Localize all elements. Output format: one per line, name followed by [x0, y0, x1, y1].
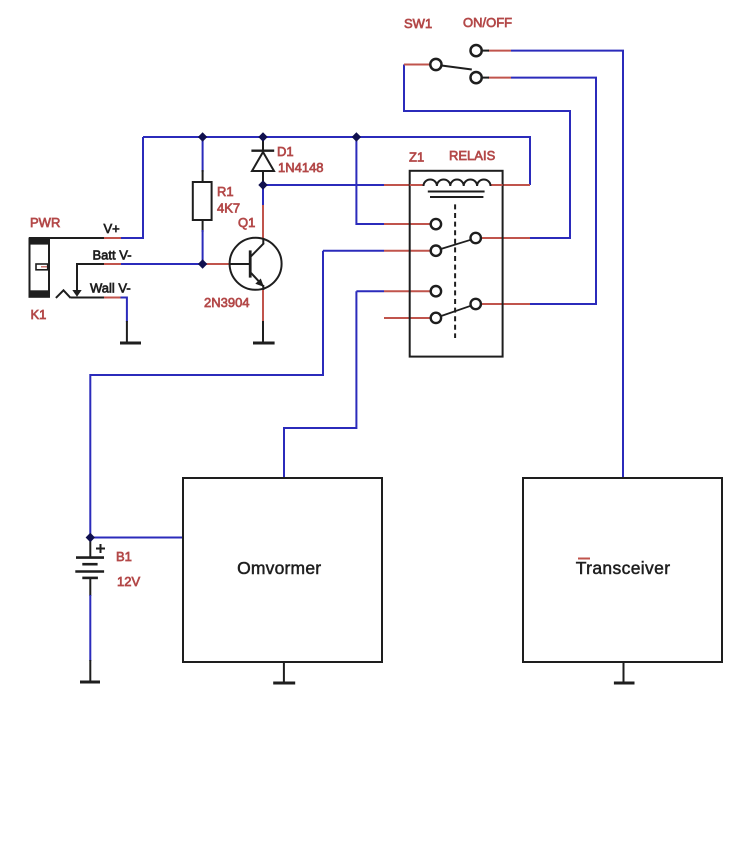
wire CR2 red [481, 303, 530, 305]
box Omvormer [183, 478, 382, 662]
relay core lines [428, 192, 485, 198]
wire R1 bottom blue [202, 230, 204, 264]
ground Transceiver [614, 662, 635, 683]
wire R1 pin bottom [202, 220, 204, 232]
wire D1 pin top [262, 137, 264, 151]
wire C2 to battery [90, 251, 323, 538]
svg-text:D1: D1 [277, 144, 294, 159]
svg-text:1N4148: 1N4148 [278, 160, 324, 175]
wire C2 blue [323, 250, 384, 252]
svg-text:K1: K1 [31, 307, 47, 322]
wire CR2 to switch bottom [511, 78, 596, 304]
svg-text:V+: V+ [104, 221, 120, 236]
node rail-D1 junction [258, 132, 267, 141]
wire C3 to Omvormer top [284, 291, 356, 478]
svg-text:Transceiver: Transceiver [576, 558, 671, 578]
svg-text:Q1: Q1 [238, 215, 255, 230]
relay contact C3 [431, 286, 441, 296]
svg-text:4K7: 4K7 [217, 201, 240, 216]
wire base red [203, 263, 229, 265]
resistor R1 [193, 182, 212, 220]
wire R1 pin top [202, 170, 204, 182]
svg-text:12V: 12V [117, 574, 140, 589]
svg-text:RELAIS: RELAIS [449, 148, 496, 163]
svg-text:PWR: PWR [30, 215, 60, 230]
ground Omvormer [273, 662, 295, 683]
wire V+ red stub [104, 237, 121, 239]
label Transceiver red artifact [578, 558, 590, 560]
svg-text:SW1: SW1 [404, 16, 432, 31]
wire Wall V- red stub [104, 297, 121, 299]
wire R1 top blue [202, 137, 204, 172]
wire Wall V- black [71, 297, 104, 299]
transistor Q1 [229, 238, 282, 290]
wire battery bottom blue [89, 595, 91, 661]
wire V+ blue [121, 237, 144, 239]
wire C1 red [384, 223, 431, 225]
wire V+ riser [142, 137, 144, 238]
wire coil left blue [263, 184, 384, 186]
svg-text:Wall V-: Wall V- [90, 281, 131, 296]
switch SW1 arm [442, 66, 472, 70]
relay arm group1 [441, 240, 471, 249]
box Transceiver [523, 478, 722, 662]
relay dashed separator [454, 204, 456, 338]
wire coil left red [384, 184, 410, 186]
wire D1 pin bottom [262, 171, 264, 185]
node rail-R1 junction [198, 132, 207, 141]
wire collector red [262, 205, 264, 239]
wire switch top red stub [488, 50, 511, 52]
connector K1 [29, 238, 50, 297]
node battery junction [86, 533, 95, 542]
node D1-coil junction [258, 180, 267, 189]
wire switch top black stub [482, 50, 489, 52]
ground Q1 emitter [253, 321, 275, 343]
wire Batt V- blue [121, 263, 203, 265]
wire top rail [143, 136, 530, 138]
relay Z1 box [410, 171, 503, 357]
wire Batt V- red stub [104, 263, 121, 265]
switch SW1 top contact [471, 45, 482, 56]
wire CR1 to switch common [404, 65, 570, 239]
ground B1 [80, 660, 100, 682]
svg-text:Omvormer: Omvormer [237, 558, 321, 578]
relay coil feed left inside [410, 184, 424, 186]
svg-text:Batt V-: Batt V- [93, 248, 132, 263]
relay contact CR2 [471, 299, 481, 309]
relay coil feed right inside [490, 184, 503, 186]
wire collector blue [262, 185, 264, 205]
wire CR1 red [481, 237, 530, 239]
relay coil arcs [424, 180, 491, 187]
wire Wall V- blue corner down [121, 298, 127, 323]
relay contact C2 [431, 246, 441, 256]
relay contact C4 [431, 313, 441, 323]
relay contact CR1 [471, 233, 481, 243]
svg-text:B1: B1 [116, 549, 132, 564]
node rail-C1 junction [352, 132, 361, 141]
wire C4 red stub [384, 317, 431, 319]
svg-text:ON/OFF: ON/OFF [463, 15, 512, 30]
wire switch bottom black stub [482, 77, 489, 79]
switch SW1 common contact [430, 59, 441, 70]
battery B1 [75, 538, 105, 578]
ground Wall V- [120, 321, 141, 343]
connector K1 switch zigzag [56, 290, 71, 298]
svg-text:2N3904: 2N3904 [204, 295, 250, 310]
wire emitter red [262, 289, 264, 322]
switch SW1 bottom contact [471, 72, 482, 83]
wire switch common red [404, 64, 430, 66]
wire C2 red [384, 250, 431, 252]
wire C1 branch [356, 137, 384, 224]
wire switch top to Transceiver [511, 51, 623, 478]
wire C3 red [384, 290, 431, 292]
wire switch bottom red stub [488, 77, 511, 79]
wire C3 blue [356, 290, 384, 292]
connector K1 batt pin arrow [72, 263, 81, 297]
relay contact C1 [431, 219, 441, 229]
diode D1 [251, 151, 274, 171]
wire coil right red [503, 184, 530, 186]
wire Batt V- black [76, 263, 104, 265]
wire battery bottom pin [89, 578, 91, 596]
wire V+ black [29, 237, 104, 239]
wire rail corner down to relay coil right feed [529, 136, 531, 185]
node base junction [198, 259, 207, 268]
wire battery to Omvormer [90, 537, 183, 539]
svg-text:Z1: Z1 [409, 150, 424, 165]
relay arm group2 [441, 306, 471, 316]
svg-text:R1: R1 [217, 184, 234, 199]
